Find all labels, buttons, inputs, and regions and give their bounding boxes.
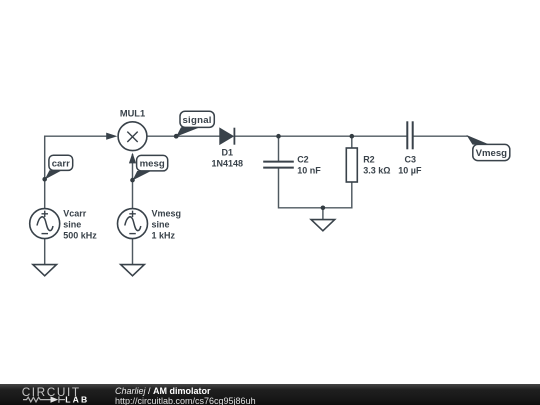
svg-text:C3: C3 — [405, 155, 417, 165]
node signal flag — [174, 111, 214, 138]
capacitor C2 — [263, 162, 294, 168]
voltage source Vcarr — [30, 209, 60, 239]
svg-text:signal: signal — [182, 115, 211, 126]
label Vmesg value — [152, 209, 182, 241]
wire C2 top — [278, 136, 280, 161]
arrowhead into MUL1 left input — [106, 133, 117, 140]
svg-text:Vmesg: Vmesg — [152, 209, 182, 219]
wire Vcarr to MUL1 input — [45, 136, 108, 208]
wire R2 top — [351, 136, 353, 148]
label D1 value — [212, 147, 244, 168]
footer bar — [0, 384, 540, 405]
diode D1 — [220, 128, 235, 145]
junction dot at signal node — [174, 134, 179, 139]
svg-text:10 nF: 10 nF — [297, 166, 321, 176]
node Vmesg output flag — [467, 135, 510, 161]
svg-text:Vcarr: Vcarr — [63, 209, 87, 219]
svg-text:10 µF: 10 µF — [398, 166, 422, 176]
svg-text:Vmesg: Vmesg — [476, 148, 508, 159]
svg-text:C2: C2 — [297, 155, 309, 165]
wire Vmesg source to ground — [132, 239, 134, 265]
junction dot at C2 node — [276, 134, 281, 139]
svg-text:R2: R2 — [363, 155, 375, 165]
svg-text:1 kHz: 1 kHz — [152, 231, 176, 241]
wire D1 to C3 — [235, 135, 408, 137]
wire C3 to Vmesg flag — [413, 135, 468, 137]
label C2 value — [297, 155, 321, 176]
resistor R2 — [346, 148, 357, 182]
svg-text:3.3 kΩ: 3.3 kΩ — [363, 166, 390, 176]
CircuitLab logo — [16, 384, 116, 405]
capacitor C3 — [407, 121, 412, 149]
svg-text:500 kHz: 500 kHz — [63, 231, 97, 241]
multiplier MUL1 — [118, 122, 147, 151]
svg-text:LAB: LAB — [65, 394, 89, 404]
wire C2 bottom / bottom net / R2 bottom — [279, 168, 352, 208]
svg-text:sine: sine — [63, 220, 81, 230]
junction dot at bottom ground node — [321, 206, 326, 211]
arrowhead into MUL1 bottom input — [129, 153, 136, 164]
svg-text:1N4148: 1N4148 — [212, 158, 244, 168]
ground middle (RC net) — [311, 220, 335, 231]
wire Vcarr source to ground — [44, 239, 46, 265]
ground under Vcarr — [33, 265, 57, 276]
svg-text:D1: D1 — [222, 147, 234, 157]
svg-text:mesg: mesg — [140, 159, 165, 170]
svg-text:MUL1: MUL1 — [120, 109, 145, 119]
node mesg flag — [130, 155, 168, 182]
wire MUL1 output to D1 — [147, 135, 220, 137]
voltage source Vmesg — [118, 209, 148, 239]
label Vcarr value — [63, 209, 97, 241]
node carr flag — [42, 155, 72, 181]
footer text — [115, 384, 256, 405]
wire ground stub middle — [322, 208, 324, 220]
ground under Vmesg — [121, 265, 145, 276]
label R2 value — [363, 155, 390, 176]
label C3 value — [398, 155, 422, 176]
svg-text:sine: sine — [152, 220, 170, 230]
svg-text:carr: carr — [52, 158, 70, 169]
junction dot at R2 node — [350, 134, 355, 139]
wire MUL1 bottom to Vmesg source — [132, 154, 134, 209]
